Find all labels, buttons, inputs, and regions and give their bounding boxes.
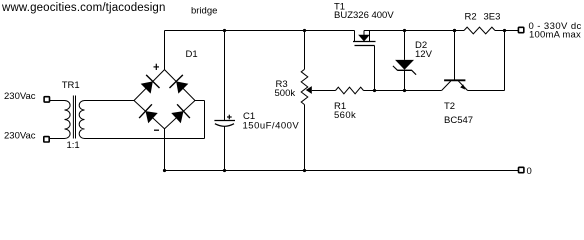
svg-text:230Vac: 230Vac <box>4 131 36 142</box>
wire R3 bottom lead <box>304 105 306 171</box>
wire top rail (bridge + to T1 drain) <box>165 30 355 32</box>
junction D2 anode node <box>403 89 406 92</box>
resistor R3 500k (pot body) <box>301 69 308 104</box>
svg-text:bridge: bridge <box>191 6 217 17</box>
transistor T1 drain stub <box>354 31 356 42</box>
wire T2 base lead <box>454 31 456 80</box>
diode D1 lower-left leg <box>146 111 158 123</box>
svg-text:150uF/400V: 150uF/400V <box>243 120 300 131</box>
diode D1 upper-left leg <box>141 81 153 93</box>
svg-text:100mA max: 100mA max <box>529 29 581 40</box>
transformer core <box>72 96 74 139</box>
transistor T1 substrate arrow <box>358 35 370 42</box>
wire bottom rail (0V) <box>165 170 519 172</box>
wire D2 node to T2 collector <box>405 90 442 92</box>
transistor T1 channel bar <box>353 41 376 43</box>
junction R3 / top rail <box>303 29 306 32</box>
junction R2 right / sense <box>503 29 506 32</box>
wire R3 top lead <box>304 31 306 70</box>
svg-text:T2: T2 <box>444 101 455 112</box>
transistor T2 emitter arrow <box>460 84 465 89</box>
svg-text:1:1: 1:1 <box>67 140 80 151</box>
wire C1 positive lead <box>224 31 226 121</box>
junction C1 / top rail <box>223 29 226 32</box>
svg-text:R2: R2 <box>465 11 477 22</box>
transistor T2 collector lead <box>442 81 451 91</box>
svg-text:500k: 500k <box>275 88 296 99</box>
svg-text:3E3: 3E3 <box>484 11 501 22</box>
terminal 230Vac top <box>44 97 49 102</box>
wire secondary bottom (to bridge right vertex) <box>85 138 205 140</box>
zener diode D2 right tick <box>412 70 416 74</box>
svg-text:TR1: TR1 <box>62 80 80 91</box>
wire gate node to D2 node <box>375 90 405 92</box>
wire D2 anode lead <box>404 70 406 90</box>
transistor T1 source stub <box>369 31 371 42</box>
transistor T1 gate bar <box>355 45 375 47</box>
zener diode D2 bar <box>397 69 412 71</box>
junction T1 gate node <box>373 89 376 92</box>
wire primary bottom lead <box>50 138 65 140</box>
label + (C1) <box>227 116 232 118</box>
transistor T2 emitter lead <box>458 81 467 91</box>
zener diode D2 body <box>395 60 414 70</box>
wire T1 gate lead <box>374 46 376 91</box>
wire primary top lead <box>50 100 65 102</box>
junction C1 / bottom rail <box>223 169 226 172</box>
transistor T1 substrate lead <box>363 31 365 36</box>
diode D1 upper-right leg <box>176 81 188 93</box>
transformer TR1 primary winding <box>65 101 71 139</box>
wire R1 to gate node <box>364 90 375 92</box>
transistor T2 base bar <box>444 79 465 81</box>
junction T2 base / top rail <box>453 29 456 32</box>
capacitor C1 curved plate <box>215 124 234 127</box>
bridge rectifier D1 diamond <box>134 70 195 129</box>
svg-text:www.geocities.com/tjacodesign: www.geocities.com/tjacodesign <box>1 2 166 14</box>
resistor R2 3E3 <box>464 27 495 34</box>
resistor R1 560k <box>336 87 364 94</box>
terminal output 0 <box>519 167 524 172</box>
terminal output + <box>518 27 523 32</box>
junction bridge - / bottom rail <box>163 169 166 172</box>
wire top rail (R2 to output +) <box>495 30 518 32</box>
wire top rail (T1 source to R2) <box>364 30 464 32</box>
terminal 230Vac bottom <box>44 137 49 142</box>
wire C1 negative lead <box>224 127 226 171</box>
svg-text:560k: 560k <box>334 110 356 121</box>
wire secondary top (to bridge) <box>85 100 135 102</box>
svg-text:D1: D1 <box>186 49 198 60</box>
transformer TR1 secondary winding <box>79 101 84 139</box>
svg-text:12V: 12V <box>415 49 433 60</box>
wire bridge - vertical <box>164 129 166 171</box>
label - (bridge) <box>154 129 159 131</box>
capacitor C1 plus plate <box>214 120 235 122</box>
junction D2 / top rail <box>403 29 406 32</box>
diode D1 lower-right leg <box>171 111 183 123</box>
label + (bridge) <box>154 66 160 68</box>
wire D2 cathode lead <box>404 31 406 60</box>
svg-text:230Vac: 230Vac <box>4 91 36 102</box>
zener diode D2 left tick <box>393 66 398 70</box>
svg-text:BUZ326 400V: BUZ326 400V <box>334 10 394 21</box>
junction R2 left / T2 base <box>453 29 456 32</box>
svg-text:BC547: BC547 <box>444 115 473 126</box>
wire output sense vertical <box>504 31 506 91</box>
wire bridge + vertical <box>164 31 166 70</box>
wire T2 emitter to sense node <box>468 90 505 92</box>
wire R3 wiper to R1 <box>312 90 336 92</box>
svg-text:0: 0 <box>527 166 532 177</box>
junction R3 / bottom rail <box>303 169 306 172</box>
potentiometer R3 wiper arrow <box>306 86 312 94</box>
